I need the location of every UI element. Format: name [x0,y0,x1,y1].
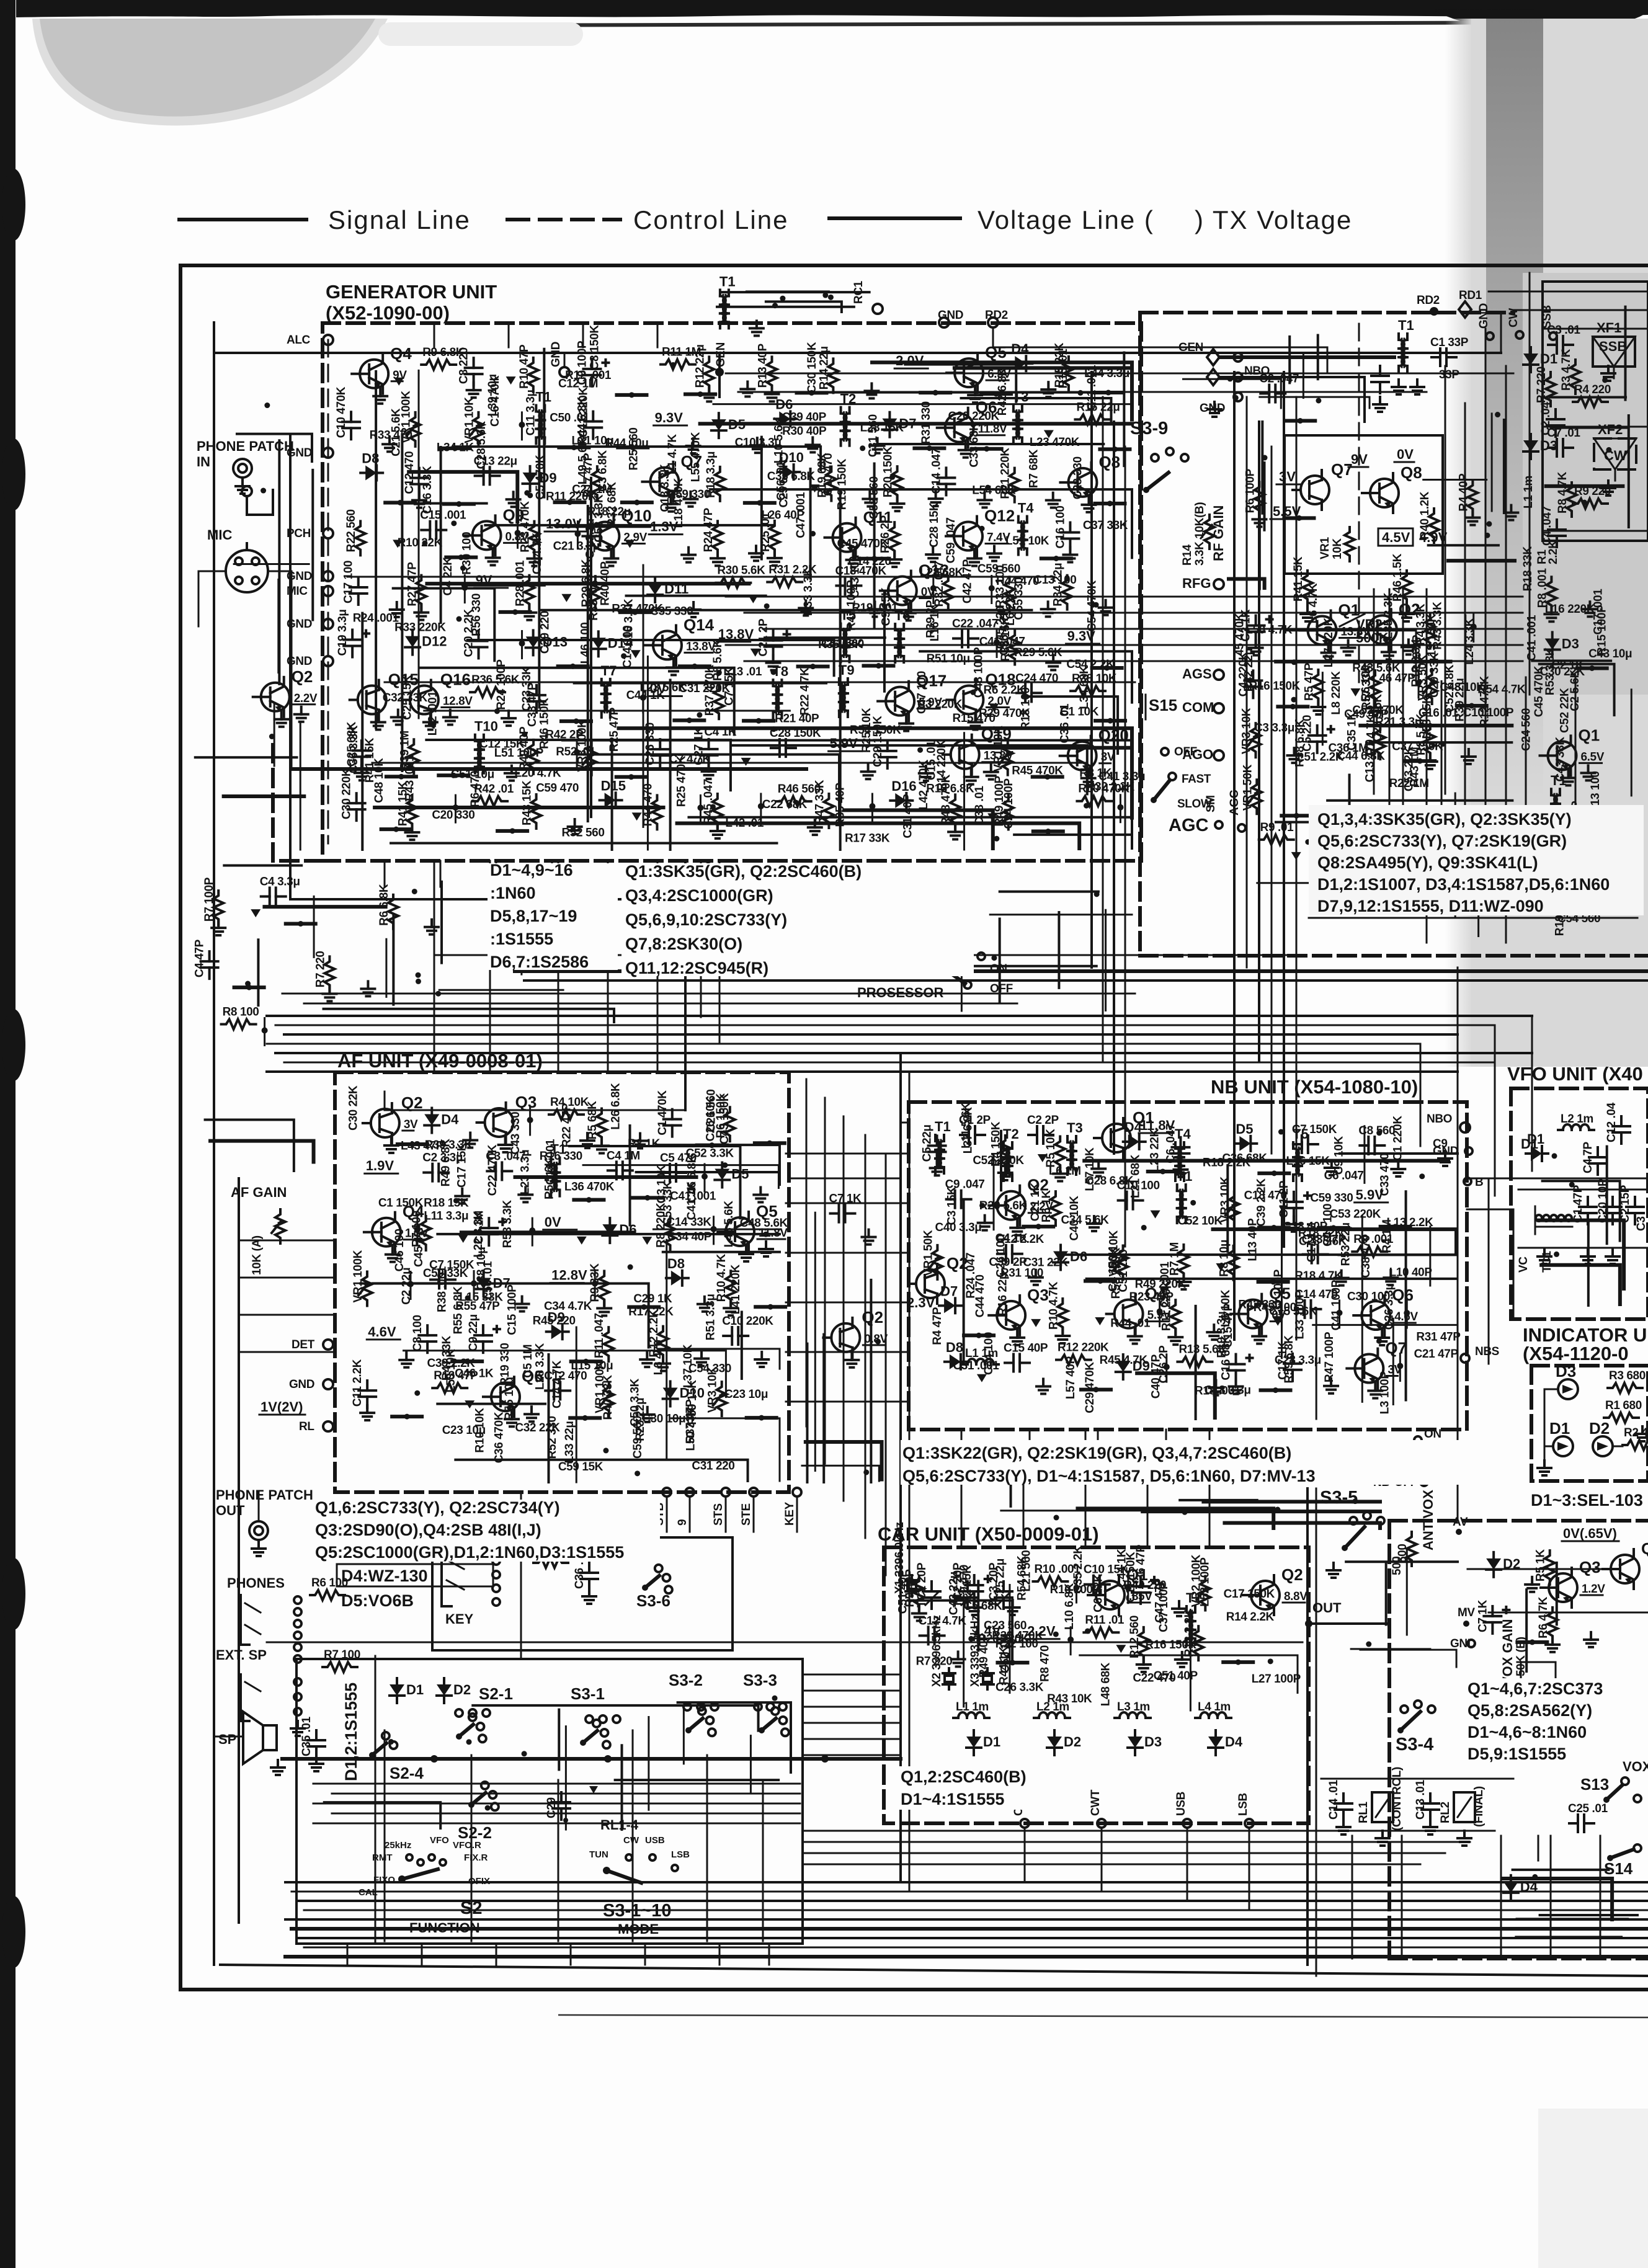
capacitor C9 RF right gray [1548,850,1550,860]
svg-text:R31 100: R31 100 [1000,1267,1043,1280]
potentiometer VR RF AGC unit [1250,723,1260,757]
wire stub [1284,516,1314,520]
ground [1255,641,1257,648]
ground [429,715,432,723]
svg-text:C25 15K: C25 15K [401,675,414,720]
VFO grounds [1587,1249,1589,1256]
svg-text:KEY: KEY [783,1501,796,1526]
resistor R13 NB unit [1177,1357,1212,1367]
svg-text:C39 40P: C39 40P [782,411,827,424]
transistor Q2 left gen margin [261,683,290,711]
svg-text:R44 6.8K: R44 6.8K [576,396,589,445]
svg-text:L54 68K: L54 68K [972,484,1016,497]
ground [1397,1162,1399,1169]
terminal GND [323,571,333,581]
junction node [1471,624,1477,630]
svg-text:VOX GAIN: VOX GAIN [1500,1619,1515,1686]
svg-text:MIC: MIC [207,527,232,543]
P16 220 resistor [533,1558,568,1568]
wire generator unit [375,806,663,809]
wire generator unit [418,370,420,718]
wire gap right of generator [1000,891,1098,893]
CAR terminal drop wire [1101,1828,1103,1892]
svg-text:C15 100P: C15 100P [506,1284,519,1335]
diode D6 NB unit [1059,1245,1062,1251]
wire RF AGC unit [1464,615,1466,716]
indicator wires [1544,1389,1558,1390]
binder hole bump [2,169,25,241]
wire generator unit [391,842,777,844]
svg-text:R45 220: R45 220 [533,1314,576,1327]
svg-text:C52 220K: C52 220K [973,1154,1024,1167]
bottom bus wire [298,1900,1648,1902]
capacitor C2 IF [1554,409,1557,419]
binder hole bump [2,438,25,510]
capacitor C12 AF unit [545,1389,554,1392]
svg-text:CAR UNIT (X50-0009-01): CAR UNIT (X50-0009-01) [878,1523,1099,1545]
svg-text:C7 15K: C7 15K [723,667,736,706]
svg-text:D5: D5 [731,1167,749,1182]
wire top header strip [717,306,854,308]
capacitor C3 AF unit [487,1170,496,1172]
svg-text:C21 2P: C21 2P [757,618,770,657]
svg-text:5.9V: 5.9V [830,736,858,751]
svg-text:TUN: TUN [589,1849,608,1860]
svg-text:ANT VOX: ANT VOX [1420,1490,1436,1550]
NB-CAR vertical wire [961,1430,963,1547]
mid right bus wire [763,628,1523,630]
wire gap right of generator [999,919,1001,1003]
wire generator unit [541,609,1032,611]
wire mic signal [292,767,806,771]
wire NBO run [1219,377,1365,422]
capacitor C7 VOX unit [1491,1606,1494,1616]
capacitor C2 top right between [1260,393,1269,395]
resistor R25 generator unit [770,521,780,555]
diode junction mark [561,594,571,602]
wire NB unit [1313,1324,1456,1326]
svg-text:CW: CW [1507,308,1520,327]
svg-text:R12 560: R12 560 [1128,1616,1141,1658]
svg-text:VC: VC [1517,1256,1530,1273]
wire stub [1085,1279,1115,1283]
NB Q2 fet [916,1270,945,1298]
resistor R44 generator unit [652,795,662,829]
svg-text:C4 1K: C4 1K [704,726,737,739]
svg-text:VFO: VFO [430,1835,449,1846]
junction node [414,1227,421,1233]
mid right bus wire [744,660,1523,662]
svg-text:R15 .01: R15 .01 [1057,349,1070,389]
svg-text:R41 15K: R41 15K [363,737,376,783]
svg-text:C20 220K: C20 220K [948,410,1000,423]
ground [1468,749,1470,757]
svg-text:L15 10μ: L15 10μ [571,1359,613,1372]
svg-text:C17 100: C17 100 [342,561,355,603]
svg-text:C26 330: C26 330 [644,723,657,765]
resistor R21 generator unit [1010,468,1020,502]
wire NB unit [1000,1131,1002,1190]
wire left gen margin [311,470,314,620]
scan left binding strip [0,0,16,2268]
VOX unit dashed box top [1389,1519,1648,1523]
diode D6 AF unit [608,1218,611,1224]
svg-text:Q7: Q7 [1385,1339,1407,1358]
junction node [408,1281,414,1287]
resistor R49 generator unit [1004,796,1013,830]
right area vertical wire [1485,329,1487,893]
control bus wire drop [1494,1025,1496,1096]
svg-text:C43 22μ: C43 22μ [947,1572,960,1615]
capacitor C5 AF unit [661,1172,670,1174]
wire stub [860,557,889,561]
phone patch in jack [233,459,252,478]
AF-NB gap vertical wire [843,1116,845,1501]
resistor R27 generator unit [416,576,426,610]
capacitor C4 left margin [208,951,211,961]
crystal X2 [948,1668,950,1673]
RF unit dashed box bottom [1140,954,1648,958]
diode D8 NB unit [945,1361,950,1363]
ground [773,551,776,558]
capacitor mid T1 [1379,366,1381,376]
svg-text:C2 5.6K: C2 5.6K [1569,669,1582,711]
capacitor C8 AF unit [426,1325,429,1335]
AF-NB link wire [786,1203,909,1204]
top right horizontal 1 [726,373,1513,375]
wire AF unit [636,1171,780,1173]
svg-text:L46 47P: L46 47P [1372,672,1415,685]
resistor R24 generator unit [713,521,723,555]
wire IF gray extra [1551,427,1628,429]
ground [870,383,873,391]
junction switch area fill [772,1696,778,1701]
wire stub [446,556,476,559]
ground [970,770,973,777]
transistor Q7 rf [1301,476,1329,504]
ground [1134,1329,1136,1336]
wire below NB gap [1203,1500,1380,1503]
phones jack [241,1595,249,1645]
ground [1093,1216,1095,1224]
wire stub [1285,419,1315,423]
svg-text:Q4: Q4 [1641,1539,1648,1558]
IF filter unit box [1543,282,1648,541]
transistor Q4 generator unit [360,360,388,388]
wire stub [863,664,893,668]
capacitor C30 generator unit [355,793,358,803]
svg-text:D4: D4 [1520,1879,1538,1895]
capacitor C4 RF AGC unit [1252,670,1254,680]
junction node [461,585,468,591]
wire run top right between [1183,379,1281,408]
svg-text:C59 560: C59 560 [631,1416,644,1459]
svg-text:0V: 0V [545,1214,561,1230]
diode junction mark [1350,688,1360,696]
svg-text:L33 22μ: L33 22μ [563,1421,576,1463]
wire switch area fill [558,1710,560,1770]
wire stub [555,500,585,504]
resistor R9 generator unit [421,360,456,370]
resistor R26 generator unit [889,522,899,556]
switch area bus wire [313,1823,800,1825]
svg-text:25kHz: 25kHz [385,1840,411,1851]
wire stub [1319,1226,1348,1230]
svg-text:R51 10μ: R51 10μ [927,652,970,665]
svg-text:GND: GND [287,570,312,583]
svg-text:C52 10K: C52 10K [1178,1215,1223,1228]
svg-text:T8: T8 [772,664,788,679]
ground [396,602,398,610]
junction generator unit [522,731,527,737]
svg-text:C10 220K: C10 220K [722,1315,773,1328]
ground [1347,641,1350,648]
svg-text:D2: D2 [1064,1734,1081,1750]
svg-text:C36 47P: C36 47P [1134,1544,1147,1589]
svg-text:C13 .01: C13 .01 [1414,1779,1427,1820]
junction CAR unit [1053,1632,1059,1637]
svg-text:2.2K: 2.2K [1547,540,1560,564]
svg-text:R44 .01: R44 .01 [1110,1317,1151,1330]
wire run below NB gap [1224,1523,1380,1528]
svg-text:R51 3.3μ: R51 3.3μ [705,1294,718,1340]
CAR bottom diodes [973,1730,975,1737]
junction generator unit [917,747,923,753]
ground [760,1352,763,1359]
ext sp jack [241,1674,249,1721]
wire run AF unit [360,1283,649,1347]
VOX gain pot box [1521,1662,1556,1683]
terminal RC1 [873,304,883,314]
wire stub [1041,556,1071,560]
ground [1258,1329,1260,1336]
AF-NB link wire [786,1153,909,1155]
diode D4 NB unit [1123,1141,1128,1143]
trimmer TC2 [966,1581,969,1591]
NB-CAR vertical wire [1147,1454,1149,1547]
wire run AF unit [656,1145,780,1185]
svg-text:C5 470K: C5 470K [534,455,547,500]
ground [405,1353,408,1360]
wire NB unit [1405,1191,1407,1400]
ground [1105,600,1107,608]
legend signal line sample [179,218,306,221]
ground [1293,748,1295,755]
wire AF unit [461,1230,635,1233]
svg-text:L55 470K: L55 470K [689,432,702,482]
svg-text:R12 22μ: R12 22μ [693,344,706,388]
vertical bus D1 [684,862,687,1110]
resistor R20 generator unit [893,466,902,500]
wire stub [755,1305,785,1309]
svg-text:Q4: Q4 [390,344,412,363]
wire NB unit [1283,1148,1285,1212]
junction below NB gap [1275,1507,1280,1513]
capacitor C12 generator unit [418,468,421,478]
junction node [592,1281,598,1287]
svg-text:D4: D4 [1225,1734,1243,1750]
wire RF AGC unit [1276,660,1450,664]
wire stub [558,664,588,668]
wire run CAR unit [908,1601,1012,1663]
wire run RF AGC upper [1229,579,1265,588]
wire run RF AGC unit [1286,631,1416,680]
capacitor C24 generator unit [1017,692,1025,694]
svg-text:R31 47P: R31 47P [1416,1330,1461,1343]
svg-text:C30 100: C30 100 [1347,1290,1390,1303]
svg-text:RD1: RD1 [1459,289,1482,302]
wire run NB unit [1213,1229,1456,1254]
junction node [989,585,995,592]
wire stub [1033,775,1062,779]
NB transformer T4 [1175,1149,1181,1157]
wire VOX unit [1525,1590,1528,1671]
diode D14 generator unit [597,631,600,638]
wire stub [561,719,591,723]
diode junction mark [251,909,261,917]
diode D2 switch area [443,1678,445,1684]
capacitor C13 generator unit [475,474,484,477]
junction node [1117,804,1123,811]
bottom bus wire [304,1910,1648,1911]
svg-text:R47 100P: R47 100P [845,580,858,631]
diode D9 NB unit [1122,1354,1125,1361]
wire stub [697,1144,727,1147]
svg-text:C4 .047: C4 .047 [1541,506,1554,546]
svg-text:Q20: Q20 [1098,726,1129,745]
svg-text:R7 100: R7 100 [324,1648,360,1661]
junction AF unit [453,1198,459,1204]
diode junction mark [393,540,403,548]
diode junction mark [506,376,516,385]
svg-text:C1 220K: C1 220K [1391,1116,1404,1161]
junction RF AGC right strip [1486,521,1492,527]
wire RF AGC unit [1327,799,1512,802]
svg-text:3V: 3V [1101,751,1115,764]
svg-text:R6 100P: R6 100P [1244,468,1257,513]
wire top header strip [747,290,829,293]
diode D4 AF unit [430,1108,433,1114]
svg-text:Q1:3SK35(GR), Q2:2SC460(B): Q1:3SK35(GR), Q2:2SC460(B) [625,862,862,881]
svg-text:L45 470K: L45 470K [1234,613,1247,663]
wire NB unit [1087,1278,1456,1280]
svg-text:GEN: GEN [715,342,728,367]
C28 cap vox [1500,1715,1502,1725]
NB coil L1 [963,1363,968,1366]
wire run generator unit [420,668,734,735]
svg-text:R39 2P: R39 2P [925,600,938,638]
transistor Q5 AF unit [726,1217,754,1246]
diode junction mark [1038,1154,1048,1162]
right mid bus wire [803,1830,1495,1832]
ground [1327,646,1330,653]
svg-text:T1: T1 [535,389,551,404]
capacitor C3 RF AGC unit [1255,616,1257,626]
svg-text:(CONTROL): (CONTROL) [1391,1767,1404,1831]
wire RF AGC right strip [1428,544,1499,546]
AF UNIT dashed box [335,1072,789,1492]
switch area vertical wire [706,1755,708,1941]
capacitor C9 AF unit [482,1325,484,1335]
wire interunit gap [264,905,385,909]
wire run RF AGC unit [1257,883,1479,936]
ground [662,1356,664,1364]
resistor R6 AF unit [725,1107,735,1141]
wire generator unit [574,682,826,685]
svg-text:C33 470: C33 470 [1378,1153,1391,1196]
svg-text:11.8V: 11.8V [978,423,1007,436]
diode junction mark [1291,852,1301,860]
svg-text:C28 3.3μ: C28 3.3μ [1275,1354,1321,1367]
scanner shadow top-left [40,19,375,117]
wire run generator unit [409,472,517,522]
legend voltage line sample [829,216,960,220]
capacitor C10 CAR unit [1085,1583,1093,1586]
junction left margin [245,981,251,987]
wire stub [964,1333,994,1337]
wire run gap AF-NB [802,1465,879,1481]
svg-text:C51 40P: C51 40P [897,1569,910,1614]
svg-text:R46 150K: R46 150K [538,698,551,749]
svg-text:C23 10μ: C23 10μ [724,1388,768,1401]
svg-text:R21 40P: R21 40P [775,712,819,725]
junction RF AGC unit [1291,659,1297,665]
svg-text:C8 150K: C8 150K [589,325,602,370]
switch box drop wire [496,1944,497,1965]
transistor Q5 NB unit [1239,1300,1267,1328]
ground [449,710,452,718]
svg-text:C34 40P: C34 40P [667,1230,712,1243]
svg-text:C3 .01: C3 .01 [1547,324,1580,337]
legend whiteout VOX [1465,1678,1648,1760]
diode D12 generator unit [411,630,414,636]
wire stub [381,827,411,831]
svg-text:C24 560: C24 560 [1520,708,1533,751]
ground [932,547,934,554]
svg-text:OFIX: OFIX [468,1876,490,1887]
resistor R40 generator unit [528,740,538,774]
svg-text:S2-2: S2-2 [458,1823,492,1842]
vertical bus H [768,1944,770,1965]
svg-text:C41 100P: C41 100P [1330,1279,1343,1330]
wire NB unit [1316,1308,1317,1419]
junction IF gray extra [1582,500,1587,505]
ground [716,824,719,831]
wire stub [234,985,264,989]
NB transformer T5 [1293,1149,1299,1157]
svg-text:Q5,6,9,10:2SC733(Y): Q5,6,9,10:2SC733(Y) [625,910,787,929]
wire run generator unit [677,824,1080,848]
capacitor C4 IF [1556,520,1558,530]
ground [925,766,927,773]
svg-text::1S1555: :1S1555 [490,930,553,948]
svg-text:L6 1M: L6 1M [1049,1165,1081,1178]
svg-text:D4: D4 [1011,341,1029,357]
wire RF right gray [1631,690,1632,796]
ground [461,1189,463,1196]
long vertical bus wire [1090,372,1093,967]
wire below NB gap [1001,1510,1272,1511]
svg-text:Q14: Q14 [684,615,715,634]
ground [765,1242,767,1249]
svg-text:C5 22μ: C5 22μ [921,1124,934,1162]
svg-text:NB UNIT (X54-1080-10): NB UNIT (X54-1080-10) [1211,1076,1418,1098]
svg-text:R3 4.7K: R3 4.7K [1560,349,1573,391]
terminal AGS [1214,670,1224,680]
svg-text:0.8V: 0.8V [864,1333,888,1346]
svg-text:SSB: SSB [1599,339,1627,354]
control bus wire [284,1033,1458,1036]
